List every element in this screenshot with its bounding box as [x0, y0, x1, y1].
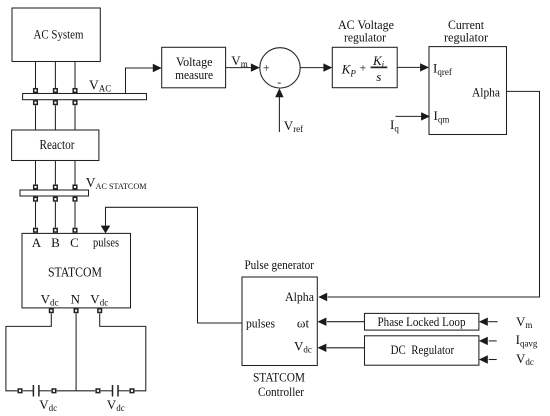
label STATCOM Controller — [253, 370, 305, 399]
svg-text:STATCOM: STATCOM — [253, 370, 305, 385]
svg-text:+: + — [360, 63, 367, 75]
terminal square phase B below bus V_AC — [54, 101, 58, 105]
block Pulse generator — [242, 277, 317, 366]
terminal square STATCOM V_dc left — [50, 309, 54, 313]
wire phase B: bus V_AC to Reactor — [54, 105, 56, 130]
wire phase C: Reactor to bus V_AC_STATCOM — [74, 161, 76, 185]
svg-text:regulator: regulator — [344, 30, 387, 45]
capacitor C2 — [76, 385, 134, 397]
svg-text:A: A — [32, 235, 42, 250]
svg-text:C: C — [70, 235, 79, 250]
wire Voltage measure to summing junction, signal V_m — [226, 67, 252, 69]
svg-text:Alpha: Alpha — [285, 289, 314, 304]
capacitor C1 — [18, 385, 76, 397]
svg-text:STATCOM: STATCOM — [48, 265, 102, 280]
wire Alpha: current regulator to pulse generator — [328, 91, 540, 297]
bus bar V_AC — [23, 94, 147, 100]
wire V_ref input to summing junction — [278, 97, 280, 132]
bus bar V_AC_STATCOM — [20, 190, 89, 196]
wire Phase Locked Loop to pulse generator wt input — [327, 321, 365, 323]
terminal square phase C at STATCOM input C — [73, 228, 77, 232]
wire V_m input to Phase Locked Loop — [488, 321, 497, 323]
wire STATCOM N to DC midpoint — [75, 313, 77, 390]
terminal square phase B above bus V_AC_STATCOM — [54, 185, 58, 189]
wire phase A: Reactor to bus V_AC_STATCOM — [35, 161, 37, 185]
block Phase Locked Loop — [365, 313, 479, 330]
svg-text:-: - — [277, 75, 281, 89]
wire summing junction to AC voltage regulator — [300, 67, 324, 69]
block Voltage measure — [162, 47, 226, 88]
wire phase A: bus V_AC to Reactor — [35, 105, 37, 130]
label Current regulator — [444, 17, 489, 45]
wire phase B: bus V_AC_STATCOM to STATCOM — [54, 202, 56, 228]
svg-text:B: B — [51, 235, 60, 250]
svg-text:+: + — [263, 61, 270, 75]
svg-text:measure: measure — [175, 67, 213, 82]
wire phase B: Reactor to bus V_AC_STATCOM — [54, 161, 56, 185]
wire STATCOM V_dc right to capacitor C2 — [100, 313, 146, 390]
wire DC Regulator to pulse generator V_dc input — [327, 347, 365, 349]
block Current regulator — [429, 47, 507, 135]
wire bus V_AC to Voltage measure — [126, 68, 154, 94]
terminal square phase A above bus V_AC — [34, 89, 38, 93]
block AC voltage regulator PI: Kp + Ki/s — [332, 47, 397, 87]
terminal square phase B above bus V_AC — [54, 89, 58, 93]
wire phase A: AC System to bus V_AC — [35, 62, 37, 89]
wire I_q input to current regulator — [396, 115, 422, 117]
terminal square STATCOM V_dc right — [98, 309, 102, 313]
wire phase C: AC System to bus V_AC — [74, 62, 76, 89]
svg-text:AC System: AC System — [34, 27, 84, 42]
wire phase C: bus V_AC to Reactor — [74, 105, 76, 130]
terminal square phase C above bus V_AC — [73, 89, 77, 93]
block Reactor — [12, 130, 99, 161]
block AC System — [12, 8, 100, 62]
terminal square phase B below bus V_AC_STATCOM — [54, 197, 58, 201]
svg-text:s: s — [376, 69, 381, 84]
block STATCOM — [22, 233, 131, 308]
svg-text:regulator: regulator — [444, 30, 489, 45]
terminal square phase C above bus V_AC_STATCOM — [73, 185, 77, 189]
wire AC voltage regulator to current regulator, signal I_qref — [397, 66, 420, 68]
summing junction — [260, 48, 300, 89]
wire phase A: bus V_AC_STATCOM to STATCOM — [35, 202, 37, 228]
svg-text:N: N — [71, 292, 81, 307]
svg-text:DC Regulator: DC Regulator — [391, 343, 455, 357]
svg-text:pulses: pulses — [93, 235, 119, 250]
svg-text:pulses: pulses — [246, 315, 275, 330]
svg-text:Controller: Controller — [258, 384, 305, 399]
terminal square phase C below bus V_AC_STATCOM — [73, 197, 77, 201]
terminal square phase A above bus V_AC_STATCOM — [34, 185, 38, 189]
svg-text:Reactor: Reactor — [40, 137, 75, 152]
svg-text:ωt: ωt — [297, 315, 310, 330]
block DC Regulator — [365, 336, 479, 365]
wire STATCOM V_dc left to capacitor C1 — [6, 313, 51, 390]
svg-text:Alpha: Alpha — [472, 84, 500, 99]
terminal square STATCOM N — [74, 309, 78, 313]
wire phase B: AC System to bus V_AC — [54, 62, 56, 89]
terminal square phase A below bus V_AC_STATCOM — [34, 197, 38, 201]
wire phase C: bus V_AC_STATCOM to STATCOM — [74, 202, 76, 228]
svg-text:Pulse generator: Pulse generator — [244, 257, 314, 272]
terminal square phase A at STATCOM input A — [34, 228, 38, 232]
terminal square phase A below bus V_AC — [34, 101, 38, 105]
svg-text:Phase Locked Loop: Phase Locked Loop — [378, 315, 466, 329]
wire V_dc input to DC Regulator — [489, 359, 497, 361]
label AC Voltage regulator — [338, 17, 394, 45]
wire I_qavg input to DC Regulator — [489, 340, 497, 342]
terminal square phase C below bus V_AC — [73, 101, 77, 105]
wire pulses: pulse generator to STATCOM — [106, 207, 243, 323]
terminal square phase B at STATCOM input B — [54, 228, 58, 232]
